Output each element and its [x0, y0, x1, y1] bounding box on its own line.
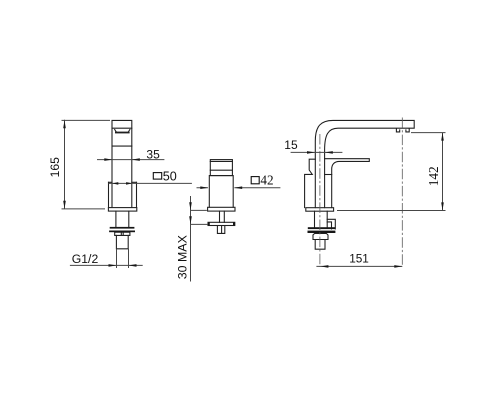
svg-text:50: 50	[163, 170, 177, 184]
svg-text:142: 142	[426, 166, 441, 186]
svg-text:151: 151	[349, 252, 369, 266]
svg-text:G1/2: G1/2	[72, 252, 99, 266]
svg-text:35: 35	[146, 147, 160, 161]
svg-text:165: 165	[48, 157, 62, 178]
svg-text:15: 15	[284, 138, 298, 152]
svg-text:42: 42	[260, 173, 273, 188]
svg-text:30 MAX: 30 MAX	[176, 235, 190, 279]
